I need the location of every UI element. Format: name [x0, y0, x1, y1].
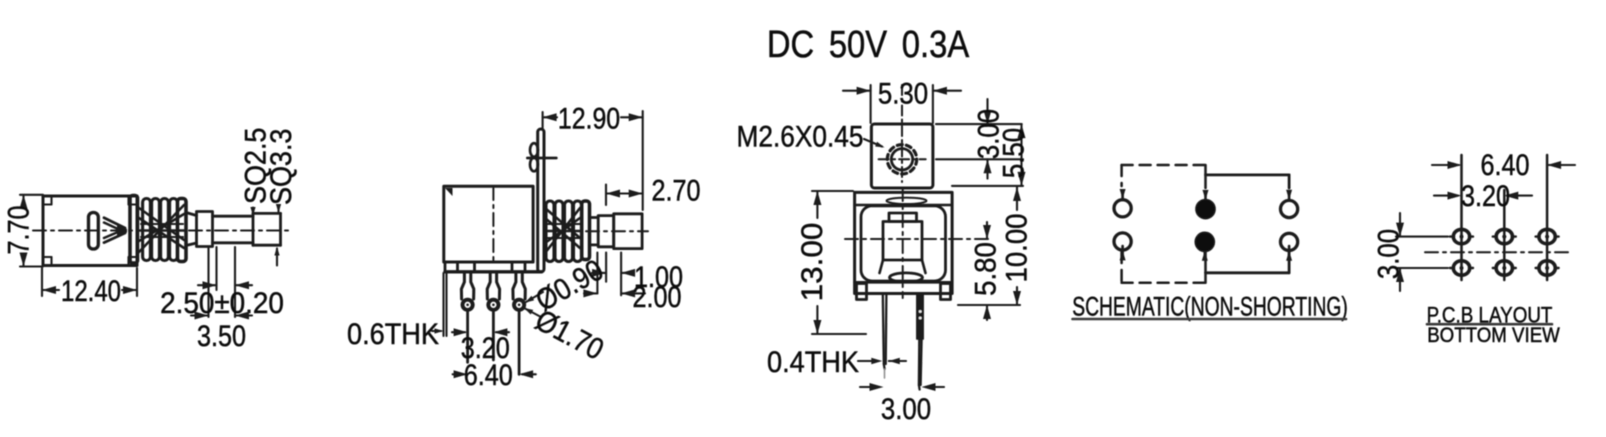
- front view corner mark: [445, 188, 453, 196]
- dimension 3.20 (terminal pitch): [452, 328, 510, 364]
- shaft neck (front view): [590, 218, 599, 245]
- front view body outline: [444, 186, 533, 262]
- end view bottom line and feet: [855, 282, 953, 299]
- mounting bracket plate (edge view): [527, 129, 556, 272]
- dimension 7.70 (body height): [1, 195, 43, 267]
- schematic middle link: [1204, 165, 1207, 283]
- contact arrows into terminals: [1120, 189, 1293, 261]
- svg-text:0.6THK: 0.6THK: [347, 318, 439, 352]
- left terminal pin (end view): [883, 294, 887, 378]
- dimension 6.40 (terminal span): [453, 358, 536, 392]
- dimension 12.90 (overall height as drawn): [543, 101, 643, 210]
- pcb caption line 2: [1427, 324, 1560, 347]
- solder terminals with eyelets (front view): [461, 273, 525, 310]
- keyway slot inside body: [89, 213, 99, 250]
- title rating text: [767, 23, 970, 66]
- svg-text:10.00: 10.00: [1000, 213, 1033, 282]
- front view vertical centerline: [492, 187, 494, 260]
- svg-text:DC 50V 0.3A: DC 50V 0.3A: [767, 23, 970, 66]
- dimension 3.00 (pin pitch, end view): [860, 383, 944, 425]
- svg-text:3.20: 3.20: [1461, 179, 1510, 213]
- shaft collar (front view): [598, 216, 614, 247]
- svg-text:M2.6X0.45: M2.6X0.45: [737, 119, 864, 153]
- schematic wire bottom rail: [1206, 251, 1290, 273]
- dimension 5.80: [969, 222, 1002, 320]
- plunger skirt (end view): [880, 260, 926, 282]
- dimension 3.20 (pcb): [1434, 179, 1532, 213]
- label SQ2.5 with extension: [239, 128, 273, 216]
- svg-text:6.40: 6.40: [1480, 148, 1529, 182]
- threaded hole centerlines: [879, 85, 926, 182]
- shaft neck (side view): [186, 213, 197, 246]
- dimension 10.00: [958, 187, 1034, 305]
- svg-text:12.90: 12.90: [558, 101, 620, 135]
- svg-text:5.80: 5.80: [969, 242, 1002, 296]
- dimension 2.70 (shaft end): [606, 173, 701, 207]
- svg-text:BOTTOM VIEW: BOTTOM VIEW: [1427, 324, 1560, 347]
- svg-text:3.50: 3.50: [197, 319, 246, 353]
- dimension 6.40 (pcb): [1432, 148, 1575, 182]
- pcb column line 3: [1546, 155, 1549, 280]
- plunger (end view): [883, 213, 922, 260]
- label diameter 1.70 with leader: [524, 302, 610, 366]
- dimension 1.00 extension lines: [597, 253, 621, 296]
- svg-text:7.70: 7.70: [1, 205, 35, 254]
- end view inner frame: [861, 206, 946, 281]
- dimension 2.00: [583, 280, 681, 314]
- dimension 1.00: [592, 260, 683, 294]
- svg-text:12.40: 12.40: [61, 273, 121, 307]
- dimension 12.40 (body width): [42, 268, 137, 308]
- label diameter 0.90 with leader: [525, 252, 609, 317]
- schematic dashed frame left: [1120, 165, 1123, 283]
- svg-text:2.70: 2.70: [651, 173, 700, 207]
- schematic terminal 2 (open): [1114, 233, 1131, 250]
- bellows spring on actuator (side view): [139, 199, 184, 261]
- shaft collar (side view): [197, 212, 213, 247]
- svg-text:5.30: 5.30: [878, 77, 928, 110]
- base rail under body: [444, 262, 542, 272]
- svg-text:6.40: 6.40: [464, 358, 513, 392]
- bellows spring (front view): [545, 201, 582, 262]
- label 0.6THK with leader: [347, 273, 447, 351]
- dimension 3.00 (tab top to hole center): [936, 99, 1023, 179]
- svg-text:3.00: 3.00: [1372, 229, 1405, 279]
- shaft centerline (front view): [586, 230, 648, 232]
- dimension 2.50 plus-minus 0.20 (shaft groove): [160, 247, 284, 320]
- svg-text:SQ3.3: SQ3.3: [265, 129, 299, 205]
- dimension 13.00 (overall height): [795, 191, 866, 334]
- schematic caption with underline: [1072, 292, 1348, 322]
- end view vertical centerline: [902, 188, 904, 298]
- mounting tab (end view): [871, 124, 933, 188]
- schematic common terminal 4 (filled): [1195, 232, 1214, 251]
- threaded hole M2.6 (end view): [887, 145, 916, 174]
- label M2.6X0.45 with leader: [737, 119, 885, 153]
- svg-text:5.50: 5.50: [997, 128, 1030, 178]
- dimension 5.50: [952, 124, 1030, 186]
- dimension 3.00 (pcb row pitch): [1372, 213, 1448, 291]
- schematic dashed frame bottom: [1122, 281, 1206, 284]
- square shaft SQ2.5 section: [213, 216, 254, 243]
- detent cone inside body: [104, 218, 127, 243]
- svg-text:2.00: 2.00: [632, 280, 681, 314]
- body corner notches (side view): [43, 196, 137, 266]
- schematic dashed frame top: [1122, 164, 1206, 167]
- pcb column line 2: [1503, 190, 1506, 280]
- right terminal pin (end view): [917, 294, 923, 390]
- end view body cap line: [855, 198, 953, 205]
- square shaft SQ3.3 section: [253, 213, 281, 245]
- dimension 3.50: [191, 312, 252, 353]
- flange plate at body exit: [130, 196, 138, 264]
- dimension 5.30 (tab width): [843, 77, 961, 123]
- svg-text:13.00: 13.00: [795, 223, 829, 302]
- schematic terminal 1 (open): [1114, 200, 1131, 217]
- schematic common terminal 3 (filled): [1196, 200, 1215, 219]
- svg-text:Ø1.70: Ø1.70: [530, 302, 609, 366]
- switch body outline (side view): [43, 196, 137, 266]
- terminal tails (front view): [468, 312, 519, 375]
- pcb pads 2x3: [1450, 229, 1559, 275]
- svg-text:2.50±0.20: 2.50±0.20: [160, 287, 284, 320]
- schematic terminal 5 (open): [1281, 200, 1298, 217]
- pcb column line 1: [1460, 155, 1463, 280]
- bellows end plate (front view): [582, 201, 590, 260]
- shaft end cap (front view): [614, 214, 642, 249]
- schematic terminal 6 (open): [1281, 233, 1298, 250]
- svg-text:SCHEMATIC(NON-SHORTING): SCHEMATIC(NON-SHORTING): [1072, 292, 1348, 322]
- label 0.4THK with leader: [767, 346, 906, 380]
- bellows end plate (side view): [178, 199, 187, 262]
- svg-text:0.4THK: 0.4THK: [767, 346, 859, 380]
- schematic wire top rail: [1206, 175, 1290, 188]
- horizontal centerline (side view): [33, 230, 288, 232]
- label SQ3.3 with extension: [265, 129, 299, 266]
- svg-text:3.00: 3.00: [881, 392, 931, 425]
- end view horizontal centerline: [845, 238, 991, 240]
- end view body outline: [855, 192, 953, 293]
- pcb caption line 1 with underline: [1427, 303, 1553, 328]
- pcb centerline: [1425, 251, 1570, 253]
